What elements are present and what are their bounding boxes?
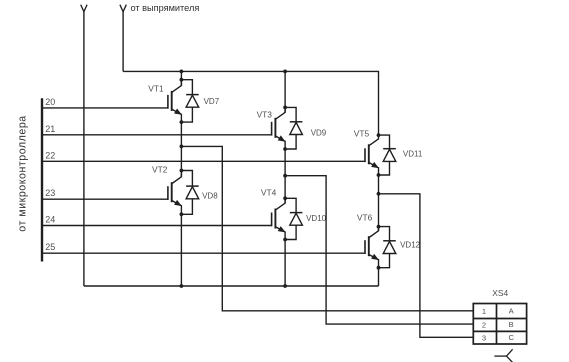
transistor VT5 emitter diagonal with arrow	[368, 162, 378, 167]
wire VT1 emitter stub	[180, 114, 182, 122]
wire leg2 midsection (VT3 emitter to VT4 collector)	[284, 149, 286, 203]
wire leg3 midsection (VT5 emitter to VT6 collector)	[378, 175, 380, 231]
diode VD11 branch wires	[379, 135, 390, 149]
svg-text:от микроконтроллера: от микроконтроллера	[17, 115, 29, 231]
diode VD10 triangle	[290, 213, 303, 225]
junction dot positive bus / leg1	[180, 70, 184, 74]
svg-text:от выпрямителя: от выпрямителя	[131, 3, 200, 13]
transistor VT4 body bar	[274, 209, 276, 229]
svg-text:VD12: VD12	[400, 241, 421, 250]
svg-text:2: 2	[482, 321, 486, 330]
svg-text:VT2: VT2	[152, 164, 168, 174]
junction dot negative bus / leg1	[180, 284, 184, 288]
svg-text:20: 20	[45, 97, 55, 107]
wire leg2 collector drop	[284, 71, 286, 112]
transistor VT1 collector diagonal	[171, 85, 181, 92]
junction dot VT2 emitter	[180, 212, 184, 216]
junction dot VT5 collector	[377, 133, 381, 137]
diode VD9 triangle	[290, 122, 303, 134]
junction dot VT1 emitter	[180, 120, 184, 124]
transistor VT3 collector diagonal	[275, 112, 285, 119]
diode VD8 cathode bar	[186, 185, 199, 187]
svg-text:22: 22	[45, 150, 55, 160]
wire control line 24 (node 24)	[42, 225, 272, 227]
svg-text:21: 21	[45, 124, 55, 134]
wire control line 23 (node 23)	[42, 198, 168, 200]
svg-text:C: C	[508, 333, 514, 342]
transistor VT6 gate bar	[364, 240, 366, 254]
wire negative rail vertical	[83, 11, 85, 286]
diode VD12 branch wires	[379, 227, 390, 241]
diode VD11 triangle	[383, 149, 396, 161]
svg-text:25: 25	[45, 242, 55, 252]
svg-text:VT5: VT5	[354, 128, 370, 138]
wire VT3 collector stub	[284, 107, 286, 112]
diode VD9 cathode bar	[290, 121, 303, 123]
svg-text:VT1: VT1	[148, 83, 164, 93]
node C phase output tap	[377, 192, 381, 196]
transistor VT2 emitter diagonal with arrow	[171, 200, 181, 205]
wire leg3 lower (VT6 emitter to negative bus corner)	[378, 268, 380, 286]
junction dot VT2 collector	[180, 169, 184, 173]
svg-text:XS4: XS4	[492, 288, 508, 298]
transistor VT1 body bar	[171, 91, 173, 111]
diode VD12 triangle	[383, 241, 396, 253]
svg-text:1: 1	[482, 307, 486, 316]
junction dot positive bus / leg2	[283, 70, 287, 74]
svg-text:VD8: VD8	[202, 192, 218, 201]
wire leg1 lower (VT2 emitter to negative bus)	[180, 214, 182, 286]
wire leg1 midsection (VT1 emitter to VT2 collector)	[180, 122, 182, 177]
svg-text:VD9: VD9	[311, 129, 327, 138]
wire VT6 emitter stub	[378, 259, 380, 268]
connector XS4 body	[473, 304, 526, 345]
wire VT5 collector stub	[378, 135, 380, 139]
transistor VT1 gate bar	[167, 95, 169, 109]
diode VD7 triangle	[186, 95, 199, 107]
transistor VT6 collector diagonal	[368, 231, 378, 238]
junction dot VT6 collector	[377, 225, 381, 229]
wire VT1 collector stub	[180, 80, 182, 86]
wire phase C to connector pin 3	[379, 194, 474, 337]
svg-text:VT6: VT6	[357, 212, 373, 222]
junction dot VT4 emitter	[283, 238, 287, 242]
wire control line 20 (node 20)	[42, 107, 168, 109]
svg-text:23: 23	[45, 188, 55, 198]
off-page arrow (DC negative rail)	[81, 5, 87, 12]
junction dot negative bus / leg2	[283, 284, 287, 288]
transistor VT3 emitter diagonal with arrow	[275, 136, 285, 141]
wire control line 25 (node 25)	[42, 252, 365, 254]
transistor VT2 body bar	[171, 182, 173, 202]
transistor VT2 gate bar	[167, 186, 169, 200]
svg-text:B: B	[509, 320, 514, 329]
svg-text:VT3: VT3	[257, 110, 273, 120]
diode VD11 cathode bar	[383, 148, 396, 150]
off-page arrow (from rectifier, DC positive)	[120, 5, 126, 12]
wire VT4 collector stub	[284, 198, 286, 203]
transistor VT5 body bar	[368, 144, 370, 164]
wire from rectifier arrow down to positive bus	[122, 11, 124, 71]
svg-text:24: 24	[45, 215, 55, 225]
junction dot VT1 collector	[180, 78, 184, 82]
wire VT5 emitter stub	[378, 167, 380, 175]
junction dot VT5 emitter	[377, 173, 381, 177]
svg-text:VD11: VD11	[403, 150, 423, 159]
transistor VT4 collector diagonal	[275, 203, 285, 210]
transistor VT6 emitter diagonal with arrow	[368, 254, 378, 259]
wire VT3 emitter stub	[284, 141, 286, 149]
svg-text:VD10: VD10	[306, 214, 327, 223]
diode VD10 branch wires	[285, 198, 296, 212]
junction dot VT6 emitter	[377, 266, 381, 270]
microcontroller bus bar	[41, 98, 43, 261]
wire control line 21 (node 21)	[42, 134, 272, 136]
wire VT6 collector stub	[378, 227, 380, 231]
svg-text:VT4: VT4	[261, 187, 277, 197]
wire phase A to connector pin 1	[181, 146, 473, 310]
diode VD7 branch wires	[181, 80, 192, 95]
node B phase output tap	[283, 174, 287, 178]
diode VD7 cathode bar	[186, 94, 199, 96]
svg-text:VD7: VD7	[204, 97, 220, 106]
transistor VT3 body bar	[274, 118, 276, 138]
wire leg2 lower (VT4 emitter to negative bus)	[284, 240, 286, 287]
transistor VT2 collector diagonal	[171, 177, 181, 184]
node A phase output tap	[180, 145, 184, 149]
wire negative emitter bus	[84, 285, 379, 287]
diode VD9 branch wires	[285, 107, 296, 121]
wire VT4 emitter stub	[284, 231, 286, 239]
transistor VT4 emitter diagonal with arrow	[275, 227, 285, 232]
junction dot VT3 collector	[283, 106, 287, 110]
diode VD8 triangle	[186, 187, 199, 199]
wire leg1 collector drop	[180, 71, 182, 85]
transistor VT6 body bar	[368, 236, 370, 256]
wire VT2 emitter stub	[180, 205, 182, 214]
wire positive DC bus	[123, 71, 378, 135]
transistor VT1 emitter diagonal with arrow	[171, 109, 181, 114]
diode VD10 cathode bar	[290, 212, 303, 214]
diode VD8 branch wires	[181, 171, 192, 187]
off-page arrow (motor connection)	[494, 349, 512, 362]
wire phase B to connector pin 2	[285, 176, 473, 324]
wire control line 22 (node 22)	[42, 160, 365, 162]
svg-text:3: 3	[482, 333, 486, 342]
junction dot VT3 emitter	[283, 147, 287, 151]
transistor VT5 gate bar	[364, 148, 366, 162]
transistor VT4 gate bar	[271, 213, 273, 227]
transistor VT3 gate bar	[271, 122, 273, 136]
transistor VT5 collector diagonal	[368, 139, 378, 146]
junction dot VT4 collector	[283, 196, 287, 200]
wire VT2 collector stub	[180, 171, 182, 177]
diode VD12 cathode bar	[383, 240, 396, 242]
